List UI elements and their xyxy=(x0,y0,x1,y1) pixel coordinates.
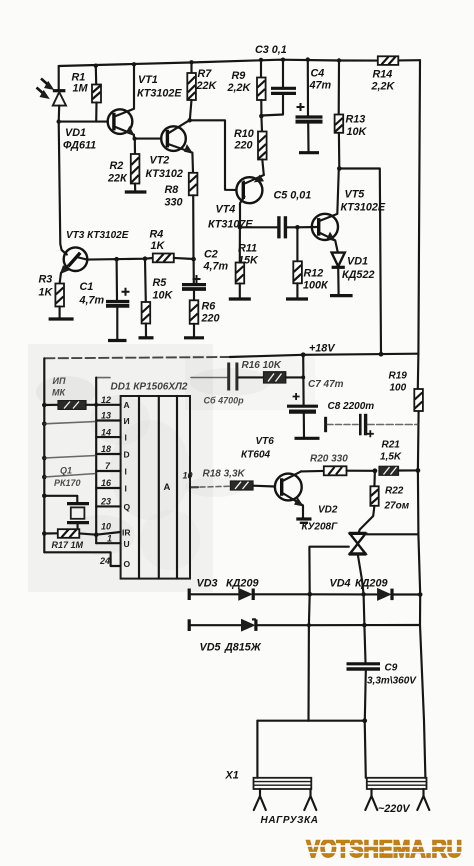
svg-text:R9: R9 xyxy=(232,70,246,82)
svg-text:DD1 КР1506ХЛ2: DD1 КР1506ХЛ2 xyxy=(111,382,188,393)
resistor R14 2,2K (horizontal on rail) xyxy=(371,56,399,92)
wire R7 node to VT4 base xyxy=(190,120,237,190)
svg-text:R14: R14 xyxy=(373,69,393,81)
resistor R11 15K xyxy=(229,227,259,299)
svg-text:C9: C9 xyxy=(385,663,398,674)
svg-text:КУ208Г: КУ208Г xyxy=(302,522,339,533)
IC DD1 КР1506ХЛ2 block xyxy=(111,382,191,579)
svg-text:330: 330 xyxy=(165,197,183,209)
svg-text:4,7m: 4,7m xyxy=(79,295,105,307)
svg-text:23: 23 xyxy=(100,497,111,507)
svg-text:R8: R8 xyxy=(165,184,179,196)
wire VT1 emitter to VT2 base xyxy=(134,138,161,140)
capacitor C9 3,3m 360V xyxy=(347,594,418,720)
wire left supply bus xyxy=(42,358,47,552)
svg-text:С7 47m: С7 47m xyxy=(308,379,344,390)
svg-text:КД522: КД522 xyxy=(342,269,374,281)
svg-text:РК170: РК170 xyxy=(54,478,81,488)
transistor VT2 КТ3102 xyxy=(146,121,194,180)
svg-text:24: 24 xyxy=(99,556,110,566)
diode VD3 КД209 xyxy=(239,589,252,600)
svg-text:КТ3102: КТ3102 xyxy=(146,168,183,180)
connector forks xyxy=(254,789,429,810)
svg-text:D: D xyxy=(124,450,130,460)
svg-text:R20 330: R20 330 xyxy=(310,454,348,465)
svg-text:R17 1M: R17 1M xyxy=(52,540,84,550)
IC output А pin10 xyxy=(164,471,231,494)
wire collector row / resistor R20 330 xyxy=(301,454,377,476)
svg-text:1K: 1K xyxy=(39,287,54,299)
svg-text:22K: 22K xyxy=(196,80,218,92)
electrolytic C2 4,7m xyxy=(182,249,229,301)
svg-text:47m: 47m xyxy=(309,80,332,92)
svg-text:I: I xyxy=(125,484,127,494)
svg-text:1M: 1M xyxy=(73,83,89,95)
svg-text:МК: МК xyxy=(52,388,66,398)
transistor VT4 КТ3107Е xyxy=(208,175,264,231)
svg-text:10K: 10K xyxy=(347,126,368,138)
svg-text:4,7m: 4,7m xyxy=(203,261,229,273)
svg-text:2,2K: 2,2K xyxy=(227,82,252,94)
wire IC pin bus xyxy=(44,378,98,544)
watermark votshema.ru xyxy=(305,835,463,863)
svg-text:C4: C4 xyxy=(311,68,325,80)
svg-text:100: 100 xyxy=(390,383,407,394)
resistor R1 1M xyxy=(72,63,102,121)
svg-text:1K: 1K xyxy=(151,240,166,252)
wire pin24 xyxy=(44,552,120,566)
svg-text:Сб 4700р: Сб 4700р xyxy=(204,396,245,406)
electrolytic C7 47m xyxy=(287,355,344,439)
svg-text:R16 10K: R16 10K xyxy=(242,360,282,371)
scan smudge texture (decorative) xyxy=(28,344,315,592)
svg-text:R11: R11 xyxy=(238,243,257,255)
svg-text:R6: R6 xyxy=(202,301,217,313)
svg-text:U: U xyxy=(124,539,130,549)
wire +18V row A xyxy=(44,343,418,359)
IC left pin stubs with numbers xyxy=(96,395,120,566)
resistor R9 2,2K xyxy=(227,58,266,119)
svg-text:10K: 10K xyxy=(153,290,174,302)
svg-text:R12: R12 xyxy=(304,268,324,280)
svg-text:КТ3107Е: КТ3107Е xyxy=(208,219,253,231)
svg-text:VD1: VD1 xyxy=(347,256,368,268)
svg-text:R13: R13 xyxy=(346,114,366,126)
svg-text:Q1: Q1 xyxy=(60,466,72,476)
photodiode VD1 ФД611 xyxy=(37,66,97,152)
svg-text:14: 14 xyxy=(101,427,111,437)
connector X1 block left xyxy=(225,770,312,790)
wire top supply rail xyxy=(59,60,378,66)
resistor (smudged) on pin12 row xyxy=(44,401,96,410)
svg-text:VT6: VT6 xyxy=(256,436,275,447)
svg-text:27ом: 27ом xyxy=(384,501,410,512)
svg-text:С3 0,1: С3 0,1 xyxy=(255,44,287,56)
svg-text:VT3 КТ3102Е: VT3 КТ3102Е xyxy=(66,230,129,241)
svg-text:2,2K: 2,2K xyxy=(371,81,396,93)
transistor VT3 КТ3102Е xyxy=(59,122,129,284)
resistor R22 27ом xyxy=(359,471,410,533)
wire diode row 2 / zener VD5 Д815Ж xyxy=(189,619,420,653)
svg-text:ФД611: ФД611 xyxy=(63,140,96,152)
resistor R6 220 xyxy=(184,300,220,338)
svg-text:C1: C1 xyxy=(80,281,94,293)
resistor R12 100К xyxy=(286,227,329,299)
svg-text:НАГРУЗКА: НАГРУЗКА xyxy=(261,815,319,826)
svg-text:10: 10 xyxy=(183,471,193,481)
svg-text:Q: Q xyxy=(124,502,131,512)
svg-text:R4: R4 xyxy=(150,229,164,241)
svg-text:И: И xyxy=(124,416,130,426)
electrolytic C1 4,7m xyxy=(79,259,130,340)
svg-text:100К: 100К xyxy=(303,280,329,292)
svg-text:12: 12 xyxy=(101,395,111,405)
wire VT3 collector row xyxy=(87,258,153,260)
svg-text:R21: R21 xyxy=(382,440,401,451)
resistor R16 10K (dark) xyxy=(242,360,306,383)
svg-text:КТ3102Е: КТ3102Е xyxy=(137,88,182,100)
svg-text:VD5: VD5 xyxy=(200,642,222,654)
electrolytic C8 2200m xyxy=(326,401,419,437)
wire R13 node to lower section xyxy=(339,169,381,355)
resistor R5 10K xyxy=(139,259,174,338)
svg-text:220: 220 xyxy=(201,313,220,325)
svg-text:~220V: ~220V xyxy=(378,803,410,815)
diode VD4 КД209 xyxy=(364,593,378,595)
resistor R19 100 (on rail) xyxy=(389,371,423,412)
svg-text:16: 16 xyxy=(101,478,112,488)
svg-text:А: А xyxy=(124,400,130,410)
svg-text:1,5K: 1,5K xyxy=(380,452,402,463)
svg-text:IR: IR xyxy=(122,528,131,538)
svg-text:10: 10 xyxy=(101,522,111,532)
resistor R3 1K xyxy=(39,274,74,320)
resistor R7 22K xyxy=(187,60,217,122)
svg-text:I: I xyxy=(125,467,127,477)
svg-text:R3: R3 xyxy=(39,274,53,286)
svg-text:VT4: VT4 xyxy=(216,204,236,216)
triac VD2 КУ208Г xyxy=(302,505,419,595)
svg-text:C2: C2 xyxy=(204,249,218,261)
transistor VT6 КТ604 xyxy=(241,436,312,523)
capacitor C6 4700p xyxy=(204,363,264,406)
svg-text:+18V: +18V xyxy=(309,343,335,355)
wire X1 load row xyxy=(257,718,367,778)
svg-text:13: 13 xyxy=(101,411,111,421)
resistor R13 10K xyxy=(335,58,368,171)
wire right mains rail xyxy=(418,60,420,389)
transistor VT1 КТ3102Е xyxy=(108,62,183,139)
svg-text:А: А xyxy=(164,482,171,493)
svg-text:O: O xyxy=(124,559,131,569)
svg-text:R19: R19 xyxy=(389,371,408,382)
connector X1 block right xyxy=(367,778,427,789)
resistor R10 220 xyxy=(234,116,267,175)
svg-text:VD1: VD1 xyxy=(65,127,86,139)
quartz Q1 xyxy=(44,466,89,534)
wire diode row 1 xyxy=(189,578,422,601)
svg-text:VD2: VD2 xyxy=(318,505,338,516)
svg-text:R18 3,3K: R18 3,3K xyxy=(203,469,246,480)
svg-text:VT1: VT1 xyxy=(138,74,158,86)
svg-text:Д815Ж: Д815Ж xyxy=(224,642,262,654)
svg-text:220: 220 xyxy=(234,140,253,152)
svg-text:3,3m\360V: 3,3m\360V xyxy=(367,676,417,687)
svg-text:15K: 15K xyxy=(238,255,259,267)
svg-text:1: 1 xyxy=(107,533,112,543)
svg-text:С8 2200m: С8 2200m xyxy=(328,401,375,412)
svg-text:VD3: VD3 xyxy=(197,578,218,590)
capacitor C5 0,01 xyxy=(274,190,319,239)
svg-text:VT2: VT2 xyxy=(150,155,170,167)
wire VT1 base node xyxy=(59,121,108,123)
capacitor C3 0,1 xyxy=(255,44,296,116)
svg-text:ИП: ИП xyxy=(53,376,66,386)
wire triac gate column down xyxy=(309,594,310,721)
resistor R2 22К xyxy=(107,139,146,192)
svg-text:18: 18 xyxy=(101,444,111,454)
svg-text:VT5: VT5 xyxy=(345,189,366,201)
wire VT4 collector node to C5 xyxy=(240,226,277,228)
svg-text:X1: X1 xyxy=(225,770,239,782)
svg-text:КД209: КД209 xyxy=(226,578,258,590)
svg-text:R10: R10 xyxy=(234,128,254,140)
svg-text:R5: R5 xyxy=(153,277,168,289)
diode VD1 КД522 xyxy=(330,253,374,296)
resistor R17 1M (horizontal) xyxy=(44,529,96,550)
svg-text:R22: R22 xyxy=(385,486,404,497)
svg-text:C5 0,01: C5 0,01 xyxy=(274,190,312,202)
resistor R8 330 xyxy=(165,173,198,259)
svg-text:R7: R7 xyxy=(198,68,213,80)
svg-text:22К: 22К xyxy=(107,173,128,185)
resistor R4 1K (horizontal) xyxy=(150,229,196,263)
transistor VT5 КТ3102Е xyxy=(312,169,386,253)
resistor R21 1,5K (dark, horizontal) xyxy=(379,440,420,476)
svg-text:R2: R2 xyxy=(110,160,124,172)
svg-text:КД209: КД209 xyxy=(355,578,387,590)
svg-text:VD4: VD4 xyxy=(330,578,351,590)
svg-text:I: I xyxy=(125,433,127,443)
wire row B from IC bus xyxy=(96,377,227,379)
resistor R18 3,3K (dark, horizontal) xyxy=(203,469,275,491)
svg-text:КТ604: КТ604 xyxy=(241,450,271,461)
IC pin letters xyxy=(122,400,131,569)
electrolytic C4 47m xyxy=(296,57,332,152)
